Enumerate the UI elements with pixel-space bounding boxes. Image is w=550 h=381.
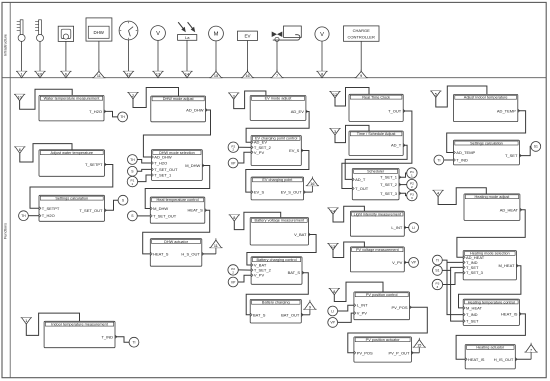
wire T_SETPT to B3 (30, 165, 113, 209)
triangle connector 7 top (270, 70, 283, 78)
node S right of B3 (118, 195, 128, 205)
svg-text:9: 9 (360, 74, 362, 78)
wire event 6 to B2 top (20, 144, 72, 162)
svg-text:AD_HEAT: AD_HEAT (500, 207, 519, 212)
node P1 left of B6 (127, 176, 137, 186)
node S1 right of B23 (531, 142, 541, 152)
svg-text:M_HEAT: M_HEAT (466, 305, 482, 310)
svg-text:7: 7 (276, 74, 278, 78)
svg-text:V_BAT: V_BAT (294, 232, 307, 237)
svg-text:T_SET_3: T_SET_3 (466, 270, 484, 275)
svg-text:TH: TH (120, 115, 125, 119)
triangle connector 15 from B21 (413, 338, 426, 353)
svg-text:H_IS_OUT: H_IS_OUT (494, 357, 514, 362)
function block B19: PV voltage measurement (350, 247, 406, 272)
function block B8: DHW actuator (150, 239, 203, 267)
svg-text:EV_S_OUT: EV_S_OUT (281, 190, 302, 195)
function block B25: Heating mode selection (463, 251, 518, 280)
svg-text:T_SET: T_SET (505, 153, 518, 158)
svg-text:V_PV: V_PV (254, 150, 265, 155)
triangle connector 6 top (60, 71, 71, 77)
node VP left of B13 (228, 277, 238, 287)
wire stem dial (65, 41, 67, 71)
wire S to B7 T_SET_OUT (137, 215, 151, 217)
svg-text:EV_S: EV_S (289, 148, 300, 153)
svg-text:L_INT: L_INT (357, 303, 368, 308)
node TH left of B6 (127, 155, 137, 165)
triangle connector 2 to B5 (127, 93, 138, 99)
icon charge controller (344, 26, 380, 41)
function block B18: Light intensity measurement (350, 211, 406, 236)
svg-text:AD_TEMP: AD_TEMP (497, 108, 516, 113)
svg-text:Light intensity measurement: Light intensity measurement (354, 212, 402, 216)
band separator infrastructure/functions (2, 77, 546, 79)
svg-text:AD_T: AD_T (355, 177, 366, 182)
wire H_S_OUT to 11 (202, 253, 216, 255)
svg-text:10: 10 (38, 73, 42, 77)
function block B26: Heating temperature control (463, 299, 521, 325)
wire stem charge controller (360, 41, 362, 71)
svg-text:10: 10 (17, 96, 21, 100)
svg-text:2: 2 (232, 148, 234, 152)
triangle connector 6 to B2 (14, 147, 25, 153)
function block B2: Adjust water temperature (39, 150, 106, 177)
svg-text:1: 1 (411, 173, 413, 177)
svg-text:V: V (320, 32, 324, 38)
icon clock (119, 21, 138, 40)
triangle connector 10 top (34, 71, 45, 77)
svg-text:T_SET: T_SET (466, 265, 479, 270)
triangle connector 14 top (181, 71, 192, 77)
wire EV_S_OUT to 16 (304, 191, 313, 193)
wire stem thermometer2 (39, 41, 41, 71)
triangle connector 11 from B8 (209, 238, 222, 254)
wire TH to B6 T_H2O (137, 160, 151, 164)
svg-text:Battery charging control: Battery charging control (256, 258, 296, 262)
svg-text:14: 14 (185, 73, 189, 77)
wire H_IS_OUT to 7 (515, 358, 531, 360)
svg-text:11: 11 (214, 244, 218, 248)
svg-text:VP: VP (411, 261, 416, 265)
wire event 10 to B1 top (20, 89, 73, 109)
wire P2 to B10 T_SET_2 (238, 146, 251, 148)
svg-text:Battery charging: Battery charging (262, 301, 290, 305)
wire stem thermometer1 (21, 41, 23, 71)
svg-text:8: 8 (233, 216, 235, 220)
svg-text:HEAT_S: HEAT_S (153, 251, 169, 256)
node P2 left of B10 (228, 142, 238, 152)
function block B6: DHW mode selection (152, 150, 205, 181)
wire stem voltmeter battery (321, 41, 323, 71)
wire V_PV to VP (404, 261, 409, 263)
node S1 left of B25 (433, 266, 443, 276)
svg-text:Infrastructure: Infrastructure (4, 34, 8, 56)
wire stem EV (247, 41, 249, 72)
svg-text:PV position actuator: PV position actuator (366, 338, 401, 342)
wire stem valve (276, 42, 278, 72)
function block B20: PV position control (354, 292, 412, 320)
function block B1: Water temperature measurement (39, 95, 106, 121)
svg-text:TH: TH (21, 214, 26, 218)
wire event 5 to B22 top (436, 86, 487, 107)
wire S to B6 T_SET_OUT (137, 169, 151, 171)
function block B13: Battery charging control (251, 257, 304, 285)
wire event 8 to B12 top (234, 212, 280, 229)
wire T_H2O to TH (104, 111, 118, 117)
node LI right of B18 (409, 223, 419, 233)
triangle connector 3 to B16 (329, 129, 340, 135)
function block B23: Settings calculation (454, 140, 522, 165)
function block B3: Settings calculation (39, 195, 106, 221)
svg-text:Adjust water temperature: Adjust water temperature (51, 151, 93, 155)
node TH right of B1 (118, 112, 128, 122)
wire M_HEAT to B26 (459, 266, 521, 308)
function block B22: Adjust indoor temperature (454, 94, 520, 121)
svg-text:T_SET: T_SET (466, 319, 479, 324)
svg-text:Functions: Functions (4, 223, 8, 239)
svg-text:8: 8 (333, 290, 335, 294)
wire event 3 to B16 top (335, 125, 369, 142)
side label strip divider (9, 2, 11, 377)
function block B21: PV position actuator (354, 337, 413, 362)
function block B24: Heating mode adjust (464, 194, 522, 221)
svg-text:VP: VP (231, 280, 236, 284)
svg-text:1: 1 (132, 182, 134, 186)
svg-text:DHW mode adjust: DHW mode adjust (163, 97, 195, 101)
function block B10: EV charging point control (251, 136, 303, 166)
wire event 14 to B18 top (333, 206, 364, 222)
svg-text:VP: VP (330, 321, 335, 325)
triangle connector 15 top (209, 70, 222, 78)
wire BAT_OUT to 9 (301, 314, 310, 316)
svg-text:AD_EV: AD_EV (291, 109, 304, 114)
triangle connector 13 to B19 (327, 244, 338, 250)
svg-text:Settings calculation: Settings calculation (470, 141, 503, 145)
svg-text:V_PV: V_PV (357, 311, 368, 316)
function block B16: Time / Schedule Adjust (349, 131, 405, 156)
icon voltmeter battery (315, 27, 329, 41)
svg-text:BAT_OUT: BAT_OUT (281, 312, 300, 317)
svg-text:9: 9 (309, 306, 311, 310)
svg-text:Adjust indoor temperature: Adjust indoor temperature (464, 96, 508, 100)
function block B27: Heating actuator (465, 345, 517, 369)
wire T_SET_2 to P2 (399, 184, 408, 186)
svg-text:16: 16 (245, 74, 249, 78)
svg-text:HEAT_IS: HEAT_IS (501, 311, 518, 316)
svg-text:T_SET_1: T_SET_1 (380, 175, 398, 180)
triangle connector 9 top (355, 70, 368, 78)
svg-text:TH: TH (130, 158, 135, 162)
svg-text:V: V (156, 31, 160, 37)
node TI left of B25 (433, 255, 443, 265)
svg-text:S1: S1 (534, 145, 538, 149)
wire event 12 to B15 top (335, 88, 369, 107)
svg-text:EV charging point: EV charging point (262, 178, 293, 182)
function block B12: Battery voltage measurement (250, 218, 310, 246)
svg-text:DHW actuator: DHW actuator (164, 240, 189, 244)
icon voltmeter PV (151, 26, 166, 41)
wire LI to B20 L_INT (337, 305, 354, 311)
svg-text:TI: TI (436, 258, 439, 262)
svg-text:2: 2 (411, 185, 413, 189)
svg-text:Scheduler: Scheduler (367, 170, 385, 174)
triangle connector 5 to B22 (430, 91, 441, 97)
svg-text:Heating mode adjust: Heating mode adjust (475, 195, 511, 199)
wire AD_T to B17 (345, 145, 407, 179)
svg-text:M_HEAT: M_HEAT (498, 263, 514, 268)
icon EV charging station (238, 31, 258, 40)
svg-text:3: 3 (334, 130, 336, 134)
wire V_BAT to B13 (247, 235, 316, 266)
svg-text:T_OUT: T_OUT (355, 186, 369, 191)
node P2 left of B13 (228, 265, 238, 275)
wire AD_EV to B10 (246, 112, 309, 143)
wire M_DHW to B7 (145, 166, 210, 209)
icon indoor temperature sensor (thermometer) (17, 20, 25, 42)
svg-text:2: 2 (232, 270, 234, 274)
wire EV_S to B11 (246, 151, 309, 193)
wire BAT_S to B14 (246, 273, 308, 315)
svg-text:LI: LI (412, 226, 415, 230)
node S left of B6 (127, 166, 137, 176)
svg-text:2: 2 (132, 94, 134, 98)
svg-text:AD_DHW: AD_DHW (186, 108, 204, 113)
svg-text:BAT_S: BAT_S (288, 270, 301, 275)
svg-text:PV position control: PV position control (366, 293, 398, 297)
svg-text:HEAT_S: HEAT_S (188, 208, 204, 213)
wire TI to B23 T_IND (443, 159, 453, 161)
svg-text:T_SET_OUT: T_SET_OUT (153, 213, 177, 218)
svg-text:Time / Schedule Adjust: Time / Schedule Adjust (357, 132, 397, 136)
icon heating valve and boiler (272, 26, 302, 42)
svg-text:AD_T: AD_T (391, 143, 402, 148)
svg-text:T_SET_OUT: T_SET_OUT (154, 167, 178, 172)
wire L_INT to LI (404, 227, 409, 229)
function block B4: Indoor temperature measurement (44, 321, 117, 347)
wire event 1 to B4 top (26, 313, 79, 335)
svg-text:1: 1 (21, 73, 23, 77)
node P2 right of B17 (407, 179, 417, 189)
wire event 4 to B24 top (438, 188, 486, 205)
node VP left of B10 (228, 158, 238, 168)
svg-text:7: 7 (530, 348, 532, 352)
svg-text:H_S_OUT: H_S_OUT (181, 251, 200, 256)
svg-text:La: La (185, 35, 190, 40)
svg-text:15: 15 (417, 344, 421, 348)
svg-text:CONTROLLER: CONTROLLER (348, 34, 375, 39)
wire T_SET_1 to P1 (399, 173, 408, 177)
wire AD_DHW to B6 (143, 110, 210, 157)
svg-text:14: 14 (331, 209, 335, 213)
icon water temperature sensor (thermometer) (35, 20, 43, 42)
wire HEAT_S to B8 (143, 210, 210, 254)
triangle connector 11 top (92, 70, 105, 78)
svg-text:M_DHW: M_DHW (185, 163, 200, 168)
node TI right of B4 (129, 337, 139, 347)
node VP right of B19 (409, 258, 419, 268)
svg-text:T_IND: T_IND (101, 334, 113, 339)
node VP left of B20 (328, 318, 338, 328)
wire stem voltmeter PV (157, 40, 159, 71)
wire TI to B25 T_IND (442, 260, 463, 262)
svg-text:3: 3 (411, 196, 413, 200)
svg-text:EV_S: EV_S (254, 190, 265, 195)
wire HEAT_IS to B27 (456, 314, 525, 359)
triangle connector 14 to B18 (327, 208, 338, 214)
triangle connector 16 from B11 (306, 177, 319, 193)
svg-text:11: 11 (97, 74, 101, 78)
svg-text:13: 13 (331, 245, 335, 249)
svg-text:AD_DHW: AD_DHW (154, 155, 172, 160)
wire event 13 to B19 top (333, 242, 364, 258)
wire TI branch to B26 T_IND (447, 262, 463, 314)
wire VP to B13 V_PV (238, 275, 252, 282)
triangle connector 9 from B14 (303, 300, 316, 315)
node P3 left of B25 (432, 279, 442, 289)
svg-text:M_DHW: M_DHW (153, 206, 168, 211)
wire P1 to B6 T_SET_1 (138, 175, 152, 182)
svg-text:T_H2O: T_H2O (154, 161, 167, 166)
svg-text:S1: S1 (435, 269, 439, 273)
svg-text:EV mode adjust: EV mode adjust (265, 97, 293, 101)
triangle connector 8 to B20 (329, 288, 340, 294)
function block B14: Battery charging (250, 299, 303, 323)
svg-text:4: 4 (437, 192, 439, 196)
svg-text:T_SET_3: T_SET_3 (380, 191, 398, 196)
function block B9: EV mode adjust (250, 96, 308, 121)
triangle connector 1 top (16, 71, 27, 77)
svg-text:BAT_S: BAT_S (253, 312, 266, 317)
svg-text:LI: LI (331, 309, 334, 313)
svg-text:DHW: DHW (93, 30, 104, 35)
svg-text:T_H2O: T_H2O (42, 213, 55, 218)
wire S1 to B25 T_SET (442, 267, 463, 270)
triangle connector 10 to B1 (14, 94, 25, 100)
wire stem La (186, 40, 188, 71)
wire event 3 to B9 top (234, 91, 266, 109)
svg-text:PV voltage measurement: PV voltage measurement (356, 248, 400, 252)
icon DHW unit (86, 18, 112, 41)
svg-text:VP: VP (231, 161, 236, 165)
function block B5: DHW mode adjust (151, 96, 208, 122)
svg-text:Water temperature measurement: Water temperature measurement (44, 97, 101, 101)
wire AD_TEMP to B23 (447, 111, 526, 153)
svg-text:16: 16 (310, 182, 314, 186)
triangle connector 13 top (152, 71, 163, 77)
svg-text:PV_P_OUT: PV_P_OUT (388, 350, 409, 355)
wire event 2 to B5 top (133, 88, 179, 108)
svg-text:Heat temperature control: Heat temperature control (157, 198, 199, 202)
triangle connector 16 top (241, 70, 254, 78)
svg-text:3: 3 (437, 285, 439, 289)
svg-text:Real Time Clock: Real Time Clock (362, 96, 390, 100)
function block B7: Heat temperature control (150, 197, 206, 223)
svg-text:HEAT_IS: HEAT_IS (468, 357, 485, 362)
svg-text:T_SET_1: T_SET_1 (154, 173, 172, 178)
svg-text:8: 8 (321, 73, 323, 77)
svg-text:Heating actuator: Heating actuator (476, 346, 505, 350)
wire T_SET_OUT to S (105, 200, 119, 210)
svg-text:T_SETPT: T_SETPT (85, 162, 103, 167)
svg-text:T_OUT: T_OUT (388, 109, 402, 114)
svg-text:15: 15 (214, 74, 218, 78)
node TI left of B23 (434, 155, 444, 165)
wire P2 to B13 T_SET_2 (239, 269, 252, 271)
wire VP to B10 V_PV (238, 152, 251, 163)
svg-text:3: 3 (233, 94, 235, 98)
svg-text:T_H2O: T_H2O (89, 109, 102, 114)
svg-text:6: 6 (65, 73, 67, 77)
svg-text:PV_POS: PV_POS (357, 350, 373, 355)
function block B17: Scheduler (352, 169, 401, 200)
triangle connector 8 top (316, 71, 327, 77)
triangle connector 3 to B9 (228, 93, 239, 99)
wire S1 branch to B26 T_SET (451, 270, 464, 321)
triangle connector 1 to B4 (21, 318, 32, 324)
triangle connector 4 to B24 (433, 190, 444, 196)
svg-text:V_PV: V_PV (254, 273, 265, 278)
svg-text:12: 12 (126, 73, 130, 77)
svg-text:6: 6 (19, 148, 21, 152)
icon setpoint dial (58, 26, 73, 41)
svg-text:T_IND: T_IND (456, 158, 468, 163)
wire PV_POS to B21 (348, 307, 428, 353)
wire AD_HEAT to B25 (457, 210, 525, 257)
wire T_SET_3 to P3 (399, 193, 408, 195)
node P3 right of B17 (407, 190, 417, 200)
node S left of B7 (127, 211, 137, 221)
svg-text:1: 1 (25, 319, 27, 323)
svg-text:TI: TI (437, 158, 440, 162)
svg-text:AD_TEMP: AD_TEMP (456, 150, 475, 155)
svg-text:T_SET_OUT: T_SET_OUT (79, 208, 103, 213)
svg-text:Indoor temperature measurement: Indoor temperature measurement (51, 323, 109, 327)
wire VP to B20 V_PV (337, 313, 354, 322)
svg-text:12: 12 (333, 93, 337, 97)
svg-text:T_SET_2: T_SET_2 (380, 182, 398, 187)
svg-text:T_SETPT: T_SETPT (42, 206, 60, 211)
svg-text:EV: EV (244, 33, 250, 38)
wire P3 to B25 T_SET_3 (443, 273, 464, 285)
svg-text:PV_POS: PV_POS (391, 305, 407, 310)
svg-text:13: 13 (156, 73, 160, 77)
svg-text:Settings calculation: Settings calculation (55, 197, 88, 201)
svg-text:T_IND: T_IND (466, 312, 478, 317)
svg-text:Heating temperature control: Heating temperature control (468, 300, 515, 304)
triangle connector 8 to B12 (229, 215, 240, 221)
wire T_OUT to B17 (342, 111, 412, 189)
wire event 8 to B20 top (334, 282, 383, 301)
svg-text:CHARGE: CHARGE (353, 28, 370, 33)
wire T_IND to TI (115, 337, 130, 342)
icon light sensor La (178, 22, 197, 40)
icon motor M (209, 26, 224, 41)
svg-text:TI: TI (132, 341, 135, 345)
wire TH to B3 T_H2O (28, 215, 39, 217)
svg-text:L_INT: L_INT (391, 225, 402, 230)
triangle connector 12 to B15 (329, 92, 340, 98)
triangle connector 7 from B27 (525, 343, 538, 360)
node LI left of B20 (328, 306, 338, 316)
function block B11: EV charging point (251, 177, 305, 200)
wire PV_P_OUT to 15 (411, 352, 419, 354)
function block B15: Real Time Clock (349, 94, 405, 121)
wire stem motor (215, 41, 217, 72)
triangle connector 12 top (123, 71, 134, 77)
svg-text:M: M (214, 32, 219, 38)
wire stem clock (128, 40, 130, 71)
wire T_SET to S1 (519, 146, 531, 155)
